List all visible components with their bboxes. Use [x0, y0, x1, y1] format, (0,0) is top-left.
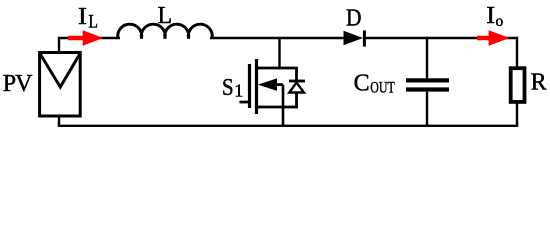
transistor S1 channel bar — [255, 59, 258, 114]
transistor S1 source bar — [255, 106, 298, 109]
transistor S1 body arrow — [258, 78, 283, 91]
wire right corner down — [516, 37, 518, 68]
svg-text:OUT: OUT — [370, 80, 395, 97]
transistor S1 body diode triangle — [289, 83, 304, 93]
wire bottom rail — [58, 125, 518, 127]
transistor S1 body diode leg bottom — [295, 93, 298, 109]
transistor S1 body diode leg top — [295, 68, 298, 81]
diode D triangle — [344, 31, 364, 45]
svg-text:I: I — [78, 4, 87, 30]
transistor S1 body diode cathode bar — [289, 80, 305, 83]
svg-text:D: D — [346, 6, 362, 32]
wire top rail right segment — [364, 37, 518, 39]
svg-text:PV: PV — [3, 71, 33, 97]
inductor L — [118, 24, 213, 38]
svg-text:L: L — [158, 3, 173, 29]
wire PV bottom stub — [58, 116, 60, 127]
svg-text:L: L — [88, 11, 98, 32]
svg-text:C: C — [354, 70, 370, 96]
resistor R body — [511, 68, 525, 102]
capacitor COUT bottom plate — [406, 87, 449, 91]
capacitor COUT top wire — [426, 37, 428, 79]
svg-text:R: R — [531, 69, 547, 95]
svg-text:1: 1 — [234, 81, 243, 101]
wire top rail left segment — [58, 37, 120, 39]
transistor S1 gate bar — [248, 64, 251, 108]
current arrow IL — [68, 30, 103, 46]
PV panel chevron — [41, 55, 80, 88]
transistor S1 gate lead — [240, 101, 251, 104]
capacitor COUT bottom wire — [426, 92, 428, 127]
transistor S1 drain bar — [255, 67, 298, 70]
diode D cathode bar — [363, 30, 366, 46]
wire PV top stub — [58, 37, 60, 53]
svg-text:o: o — [496, 13, 504, 30]
PV panel body — [40, 53, 81, 117]
transistor S1 source lead — [282, 85, 285, 127]
svg-text:I: I — [486, 3, 495, 29]
svg-text:S: S — [222, 75, 234, 101]
transistor S1 drain lead — [278, 38, 280, 69]
current arrow Io — [477, 30, 510, 46]
capacitor COUT top plate — [406, 78, 449, 82]
wire top rail middle segment — [210, 37, 345, 39]
resistor R bottom wire — [516, 102, 518, 127]
